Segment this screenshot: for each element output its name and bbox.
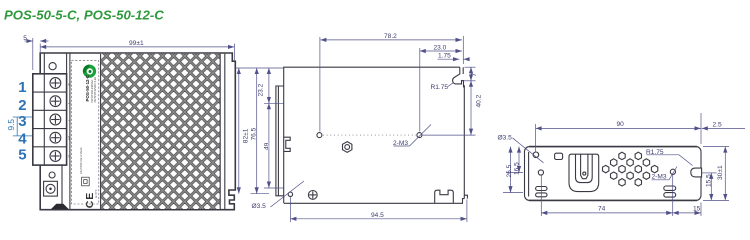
dimension 7	[465, 66, 476, 68]
svg-text:5: 5	[18, 147, 26, 164]
mounting hole left	[317, 133, 322, 138]
small square hole	[555, 153, 563, 159]
svg-text:Ø3.5: Ø3.5	[498, 135, 513, 142]
svg-text:23.0: 23.0	[434, 44, 447, 51]
svg-text:2.5: 2.5	[713, 121, 722, 128]
svg-text:90: 90	[617, 121, 625, 128]
dimension 1.75 slot	[438, 58, 460, 60]
dimension 74	[540, 176, 542, 216]
dimension 26.5	[503, 192, 523, 194]
svg-text:15: 15	[693, 206, 701, 213]
svg-text:N: N	[67, 83, 71, 86]
hex nut emboss	[343, 142, 352, 153]
svg-text:Ø3.5: Ø3.5	[252, 203, 267, 210]
oval slots right pair	[664, 186, 676, 190]
svg-text:78.2: 78.2	[384, 33, 397, 40]
svg-text:30±1: 30±1	[717, 165, 724, 180]
terminal strip side profile	[276, 86, 284, 196]
svg-text:7: 7	[471, 73, 478, 77]
dimension 9.5 terminal pitch	[13, 117, 32, 136]
terminal numbers 1-5	[18, 79, 27, 164]
AC connector inner	[581, 155, 588, 179]
slot notch right edge R1.75	[691, 168, 702, 177]
svg-text:74: 74	[598, 206, 606, 213]
oval slots left pair	[536, 187, 547, 191]
M3 hole left	[538, 170, 543, 175]
dimension 2.5	[702, 127, 745, 129]
svg-text:76.5: 76.5	[250, 127, 257, 140]
dimension 78.2	[319, 37, 321, 132]
svg-text:POS-50-5-C, POS-50-12-C: POS-50-5-C, POS-50-12-C	[4, 8, 164, 23]
bottom view case outline	[525, 147, 702, 201]
vent hexagons	[603, 152, 658, 186]
svg-text:L: L	[67, 102, 71, 104]
terminal key tab	[284, 137, 291, 151]
front view case outline	[40, 53, 235, 210]
terminal name labels N L G +V -V	[67, 83, 71, 159]
dimension 90	[535, 124, 537, 152]
mounting clip bottom	[435, 190, 454, 203]
terminal screw 4	[50, 132, 61, 143]
terminal screw 1	[50, 78, 61, 89]
terminal block outline	[33, 74, 67, 165]
svg-text:5: 5	[23, 35, 27, 42]
dimension 99±1 case width	[233, 44, 235, 61]
front view vent crosshatch panel	[101, 54, 221, 209]
led hole	[49, 172, 55, 178]
dimension 16.5	[506, 172, 523, 174]
svg-text:4: 4	[18, 131, 27, 148]
svg-text:23.2: 23.2	[258, 83, 265, 96]
left edge ridge	[528, 152, 530, 197]
svg-text:2: 2	[18, 97, 26, 114]
mounting hole right 2-M3	[417, 133, 422, 138]
keyhole slot top right	[453, 67, 465, 87]
svg-text:1: 1	[18, 79, 26, 96]
potentiometer	[44, 181, 58, 196]
svg-text:16.5: 16.5	[514, 162, 521, 175]
hole 3.5 top left	[533, 152, 539, 158]
svg-text:POS-50-12-C: POS-50-12-C	[85, 74, 90, 101]
dimension 23.2	[264, 102, 284, 104]
AC connector middle	[576, 155, 593, 183]
svg-text:1.75: 1.75	[438, 53, 451, 60]
dimension 49	[264, 187, 284, 189]
svg-text:3: 3	[18, 113, 26, 130]
svg-text:9.5: 9.5	[6, 119, 16, 131]
svg-text:94.5: 94.5	[371, 212, 384, 219]
dimension 15	[700, 203, 702, 217]
M3 hole right	[670, 169, 675, 174]
chassis hole 3.5	[288, 192, 292, 196]
svg-text:-V: -V	[67, 154, 71, 158]
ground screw	[308, 191, 317, 200]
svg-text:40.2: 40.2	[476, 94, 483, 107]
svg-text:+V: +V	[67, 135, 71, 140]
svg-text:CAUTION: risk of shock: CAUTION: risk of shock	[80, 147, 83, 174]
potentiometer column	[61, 165, 63, 209]
terminal screw 5	[50, 151, 61, 162]
svg-text:⊥: ⊥	[67, 119, 71, 122]
terminal screw 3	[50, 114, 61, 125]
side view case outline	[284, 67, 468, 203]
hole centerline dotted	[323, 134, 416, 136]
label sticker dashed outline	[71, 61, 98, 204]
svg-text:26.5: 26.5	[506, 164, 513, 177]
terminal cover housing and hole	[43, 54, 45, 74]
svg-text:49: 49	[263, 142, 270, 150]
front panel seam	[69, 54, 71, 210]
svg-text:15.5: 15.5	[705, 174, 712, 187]
terminal screw 2	[50, 96, 61, 107]
svg-text:OUTPUT:12VDC 4.2A: OUTPUT:12VDC 4.2A	[93, 77, 97, 103]
svg-text:99±1: 99±1	[129, 40, 144, 47]
dimension 23.0	[419, 48, 421, 132]
dimension 40.2	[423, 134, 476, 136]
svg-text:ta 70°C: ta 70°C	[94, 189, 98, 198]
rubber foot	[51, 204, 69, 210]
double insulation symbol	[82, 177, 90, 186]
dimension 82±1 and 76.5	[236, 67, 284, 69]
svg-text:R1.75: R1.75	[431, 84, 449, 91]
svg-text:82±1: 82±1	[243, 128, 250, 143]
dimension 5 terminal protrusion	[32, 38, 34, 70]
green logo	[83, 65, 96, 78]
AC connector outer	[569, 154, 599, 191]
dimension 15.5	[702, 172, 717, 174]
dimension 94.5	[289, 197, 291, 222]
dimension 30±1	[703, 146, 729, 148]
